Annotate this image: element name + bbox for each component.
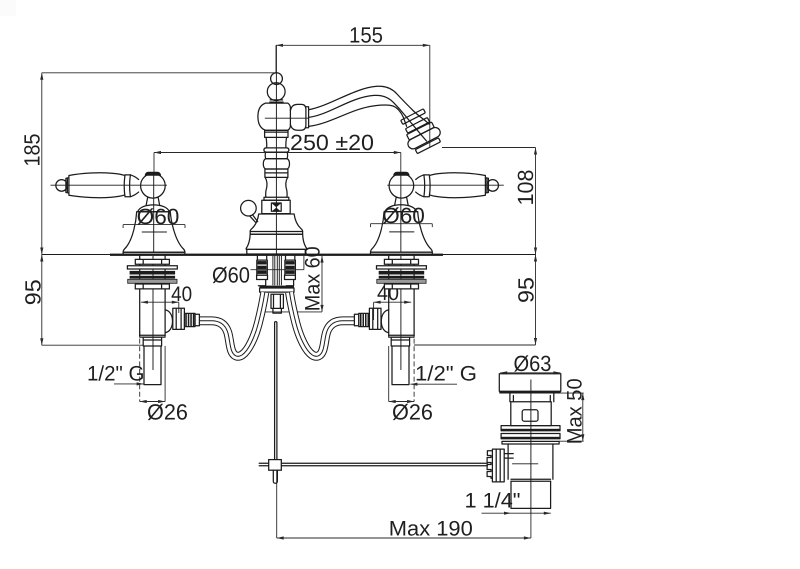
label 1/2" G left [87, 363, 145, 386]
base plinth [123, 252, 185, 254]
svg-text:Max 190: Max 190 [389, 518, 473, 541]
ring 2 [501, 434, 560, 439]
escutcheon block [262, 200, 290, 213]
finial neck [270, 100, 283, 102]
nut 1 [135, 259, 169, 264]
thread band 2 [379, 276, 425, 279]
lever tip collar [485, 178, 488, 193]
svg-text:1 1/4": 1 1/4" [465, 490, 521, 513]
svg-text:1/2" G: 1/2" G [87, 363, 145, 386]
dimension 40 left [141, 283, 192, 313]
escutcheon cone [123, 212, 185, 253]
ring 1 [501, 426, 560, 431]
mounting plate [260, 286, 294, 293]
cone center tick [142, 231, 167, 233]
shank tube [140, 256, 165, 336]
thread band 2 [130, 276, 176, 279]
threaded 1/2 section [391, 337, 409, 346]
handle ball [389, 174, 414, 199]
right shank of column [285, 256, 296, 286]
valve centerline [152, 256, 154, 370]
washer 1 [127, 266, 177, 269]
gray washer [128, 279, 177, 283]
pop-up lever ball [241, 200, 257, 216]
finial large ball [267, 83, 285, 101]
dimension O26 left [140, 331, 188, 425]
dimension 250 +-20 [154, 130, 401, 173]
thread band 1 [379, 271, 425, 275]
svg-text:95: 95 [514, 277, 539, 303]
neck [510, 394, 554, 402]
pop-up guide tubes [273, 256, 282, 285]
bonnet dome [385, 205, 416, 212]
elbow bulge [165, 310, 172, 333]
dimension 95 left [21, 255, 144, 346]
dimension 155 [276, 23, 430, 148]
faucet body [258, 103, 291, 130]
handle cap [393, 172, 409, 176]
dimension 185 [20, 73, 277, 255]
washer 1 [377, 266, 427, 269]
overflow slot [522, 410, 538, 421]
dimension O63 [500, 351, 560, 376]
body lower [508, 444, 553, 479]
elbow hex nut [369, 308, 381, 329]
escutcheon cone [370, 212, 432, 253]
lower tube [144, 346, 161, 385]
spout top line [309, 86, 429, 124]
dimension O26 right [389, 331, 433, 425]
dimension 95 right [414, 255, 539, 346]
dimension 1 1/4" [465, 490, 551, 515]
pop-up lever stem [250, 215, 258, 223]
elbow bulge [381, 310, 388, 333]
tailpiece section line [511, 479, 551, 481]
left shank of column [257, 256, 268, 286]
handle axis centerline [400, 172, 402, 252]
lever tip ball [487, 180, 499, 192]
column collar 3 [264, 197, 289, 200]
elbow ribbed adapter [359, 313, 370, 326]
spout connector [290, 104, 308, 130]
elbow ribbed adapter [185, 313, 196, 326]
svg-text:40: 40 [171, 283, 192, 306]
label O60 center with leader [212, 256, 304, 288]
pivot line [512, 463, 538, 465]
svg-text:Ø60: Ø60 [137, 204, 180, 229]
elbow end collar [195, 314, 199, 326]
bell lower [246, 234, 307, 249]
top flange [499, 374, 561, 392]
lever body [430, 173, 485, 198]
dimension Max 190 [277, 470, 531, 540]
svg-text:Ø60: Ø60 [212, 263, 250, 288]
faint corner artifact [0, 0, 16, 16]
svg-text:95: 95 [21, 279, 46, 305]
svg-text:185: 185 [20, 134, 45, 167]
svg-text:1/2" G: 1/2" G [415, 363, 477, 386]
bell base plate [247, 249, 305, 254]
svg-text:Ø26: Ø26 [392, 400, 433, 425]
valve centerline [400, 256, 402, 370]
bell upper [250, 214, 302, 232]
base plinth [371, 252, 433, 254]
gray washer [377, 279, 426, 283]
rod lower stub [273, 470, 277, 483]
spout middle line [309, 95, 427, 141]
handle centerline horizontal [51, 184, 168, 186]
svg-text:Ø63: Ø63 [514, 351, 552, 376]
handle ball [141, 174, 166, 199]
label 1/2" G right [410, 363, 477, 386]
svg-text:108: 108 [513, 170, 538, 206]
handle axis centerline [153, 172, 155, 252]
valve body bottom [140, 335, 165, 337]
left hose [200, 292, 265, 356]
lower tube [392, 346, 409, 385]
cone center tick [389, 231, 414, 233]
right hose [290, 292, 355, 356]
bell step [250, 232, 302, 235]
rod block [269, 460, 282, 471]
handle neck [146, 198, 159, 205]
dimension Max 60 [262, 246, 325, 312]
lever tip collar [66, 178, 69, 193]
clevis knob [487, 449, 504, 482]
ring 3 [502, 441, 559, 444]
svg-text:250 ±20: 250 ±20 [290, 130, 374, 155]
clevis link [504, 454, 513, 459]
svg-text:Ø60: Ø60 [382, 203, 425, 228]
pop-up rod (upper) [275, 322, 277, 460]
svg-text:Max 50: Max 50 [564, 378, 587, 444]
handle centerline horizontal [387, 184, 504, 186]
horizontal bar [259, 463, 487, 466]
drain centerline [530, 380, 532, 515]
column vase [265, 177, 287, 197]
dimension 40 right [374, 282, 412, 320]
handle cap [145, 172, 161, 176]
dimension 108 [442, 148, 538, 255]
hose coupling block [271, 294, 283, 313]
tailpiece [511, 481, 551, 508]
column barrel 1 [265, 152, 287, 159]
column flare ring [264, 148, 289, 152]
deck line [42, 254, 536, 256]
body upper [511, 402, 551, 426]
nut 2 [135, 284, 169, 289]
svg-text:155: 155 [349, 23, 383, 48]
lever collar [124, 175, 138, 197]
column torus bulge [263, 159, 289, 169]
column below body: collar [265, 130, 288, 137]
nut 1 [384, 259, 418, 264]
spout body horizontal centerline [265, 117, 309, 119]
column waist [266, 137, 287, 148]
elbow end collar [354, 314, 358, 326]
center column vertical centerline [275, 45, 277, 254]
lever tip ball [56, 180, 68, 192]
handle neck [395, 198, 408, 205]
elbow hex nut [173, 308, 185, 329]
lever collar [416, 175, 430, 197]
thread band 1 [130, 271, 176, 275]
valve body bottom [389, 335, 414, 337]
O60 dim line right [371, 224, 433, 227]
lever body [69, 173, 124, 198]
shank tube [389, 256, 414, 336]
nut 2 [384, 284, 418, 289]
dimension Max 50 [559, 378, 586, 444]
bonnet dome [138, 205, 169, 212]
spout bottom line [309, 105, 407, 126]
mixer X symbol [271, 203, 281, 211]
svg-text:Ø26: Ø26 [147, 400, 188, 425]
svg-text:Max 60: Max 60 [302, 246, 325, 311]
column collar 2 [265, 169, 288, 177]
aerator [396, 107, 444, 156]
O60 dim line left [123, 225, 185, 228]
finial small ball [271, 73, 283, 85]
threaded 1/2 section [143, 337, 161, 346]
